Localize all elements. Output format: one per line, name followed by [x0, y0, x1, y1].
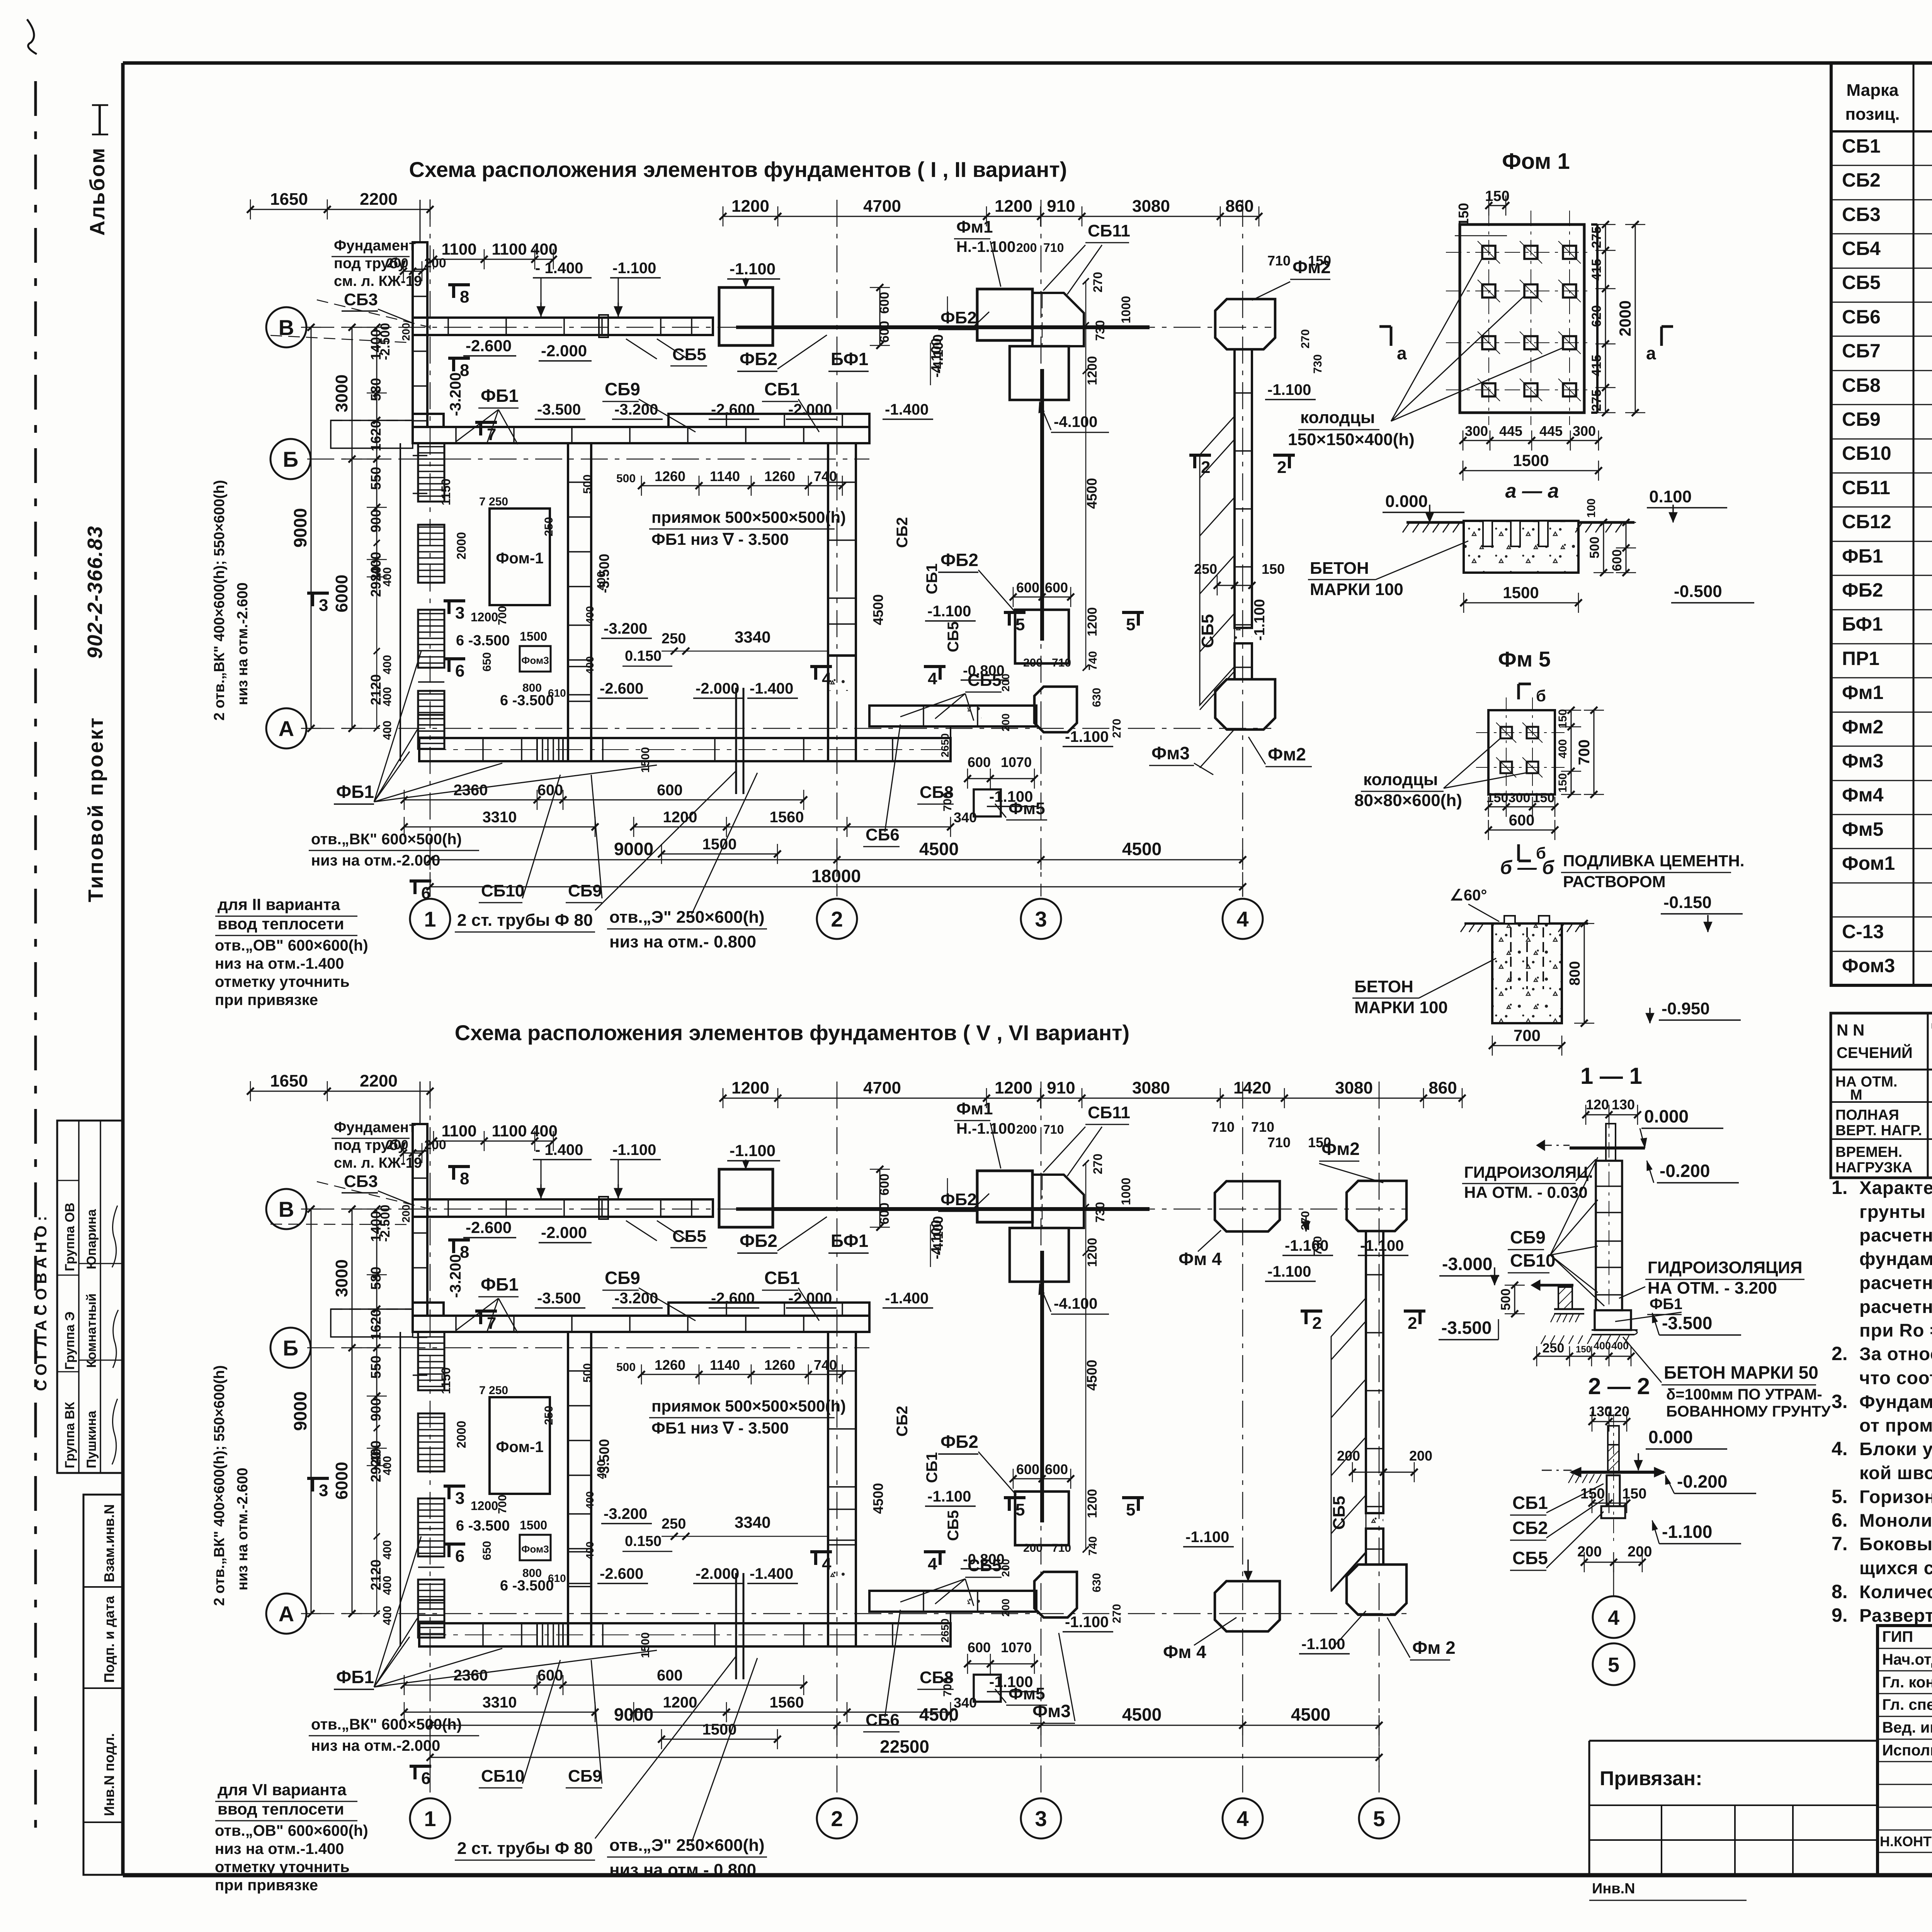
svg-text:1260: 1260: [764, 468, 795, 484]
svg-text:СБ10: СБ10: [481, 881, 524, 900]
svg-text:ввод теплосети: ввод теплосети: [218, 1800, 344, 1818]
svg-text:отв.„ВК" 600×500(h): отв.„ВК" 600×500(h): [311, 1716, 462, 1733]
svg-text:Фм 5: Фм 5: [1498, 647, 1551, 671]
plan 1 Фом-1 rectangle: [490, 509, 550, 605]
svg-text:ФБ2: ФБ2: [1842, 579, 1883, 601]
svg-text:СБ6: СБ6: [866, 825, 900, 844]
components table: [1831, 63, 1932, 985]
svg-text:щихся с грунтом , окраси: щихся с грунтом , окрасить битумом за 2 …: [1859, 1558, 1932, 1578]
svg-text:МАРКИ 100: МАРКИ 100: [1354, 998, 1448, 1017]
plan 2 Фм2 corner blocks: [1347, 1181, 1406, 1231]
svg-text:-4.100: -4.100: [1054, 413, 1097, 430]
plan 2 axis row circles В Б А: [266, 1189, 306, 1229]
svg-text:2 отв.„ВК" 400×600(h); 550×600: 2 отв.„ВК" 400×600(h); 550×600(h): [211, 480, 228, 721]
svg-text:СБ5: СБ5: [1512, 1548, 1548, 1568]
svg-text:1200: 1200: [1085, 1238, 1100, 1267]
svg-text:А: А: [279, 1602, 294, 1626]
svg-text:4700: 4700: [863, 1078, 901, 1097]
svg-text:-1.100: -1.100: [927, 603, 971, 620]
svg-text:8: 8: [460, 361, 469, 380]
svg-text:ФБ1: ФБ1: [1650, 1296, 1682, 1313]
svg-text:740: 740: [1087, 651, 1099, 670]
plan 2 ФБ2 lower square on axis 3: [1015, 1492, 1069, 1545]
svg-text:Фм3: Фм3: [1032, 1701, 1071, 1721]
svg-text:а — а: а — а: [1505, 480, 1559, 502]
svg-text:СБ8: СБ8: [1842, 374, 1881, 396]
plan 1 прямок upper plate: [668, 414, 869, 427]
svg-text:-1.100: -1.100: [1065, 1614, 1109, 1631]
svg-text:200: 200: [1337, 1448, 1360, 1464]
svg-text:2 — 2: 2 — 2: [1588, 1373, 1650, 1399]
svg-text:Фм1: Фм1: [956, 218, 993, 236]
svg-text:см. л. КЖ-19: см. л. КЖ-19: [334, 1155, 422, 1171]
svg-text:7: 7: [487, 1314, 496, 1333]
svg-text:СБ5: СБ5: [945, 621, 962, 652]
loads table: [1831, 1013, 1932, 1178]
svg-text:СБ8: СБ8: [920, 783, 954, 802]
svg-text:200: 200: [400, 1204, 412, 1223]
svg-text:550: 550: [368, 1355, 384, 1379]
section 2-2 axis line and circles 4 5: [1613, 1562, 1614, 1596]
plan 1 section mark 3 left: [307, 592, 329, 595]
svg-text:3000: 3000: [332, 374, 351, 412]
svg-text:-2.600: -2.600: [466, 1218, 512, 1236]
plan 1 фундамент под трубу dashed: [331, 420, 413, 448]
svg-text:800: 800: [522, 682, 542, 694]
svg-text:600: 600: [657, 1667, 683, 1684]
section 1-1 fan leaders: [1550, 1157, 1598, 1255]
svg-text:М: М: [1850, 1087, 1862, 1103]
svg-text:2: 2: [831, 1806, 843, 1831]
svg-text:0.000: 0.000: [1648, 1427, 1693, 1447]
svg-text:расчетное значение объе: расчетное значение объемной массы грунта…: [1859, 1225, 1932, 1246]
svg-text:270: 270: [1111, 1604, 1123, 1623]
svg-text:600: 600: [877, 1202, 892, 1225]
svg-text:270: 270: [1091, 1154, 1105, 1174]
svg-text:1560: 1560: [770, 809, 804, 826]
svg-text:отв.„ВК" 600×500(h): отв.„ВК" 600×500(h): [311, 831, 462, 848]
plan 2 БФ1 vertical beam on axis 3: [1040, 1251, 1044, 1522]
svg-text:7 250: 7 250: [479, 495, 508, 508]
section 2-2 ground hatch left: [1568, 1474, 1573, 1483]
svg-text:Гл. спец.: Гл. спец.: [1882, 1696, 1932, 1713]
plan 1 top wall on axis В: [413, 318, 713, 335]
plan 2 Фом3 square: [520, 1535, 551, 1560]
svg-text:4500: 4500: [1122, 839, 1162, 859]
svg-text:СБ3: СБ3: [344, 1172, 378, 1191]
svg-text:400: 400: [381, 655, 394, 674]
plan 2 right strip hatching: [1331, 1298, 1366, 1590]
svg-text:1200: 1200: [1085, 607, 1100, 636]
svg-text:-3.200: -3.200: [604, 620, 647, 637]
svg-text:N N: N N: [1837, 1021, 1864, 1039]
plan 2 600 600 dims beside ФБ2 square: [879, 1169, 881, 1227]
plan 1 ФБ2 lower square on axis 3: [1015, 610, 1069, 663]
svg-text:4: 4: [1236, 1806, 1248, 1831]
svg-text:А: А: [279, 716, 294, 741]
svg-text:200: 200: [1000, 713, 1012, 731]
plan 1 bottom dims: [430, 859, 1243, 861]
svg-text:Фом3: Фом3: [521, 655, 549, 666]
svg-text:низ на отм.-1.400: низ на отм.-1.400: [215, 955, 344, 972]
svg-text:СБ1: СБ1: [923, 1452, 940, 1483]
svg-text:900: 900: [368, 509, 384, 532]
svg-text:-3.000: -3.000: [1442, 1254, 1492, 1274]
svg-text:-1.400: -1.400: [885, 401, 929, 418]
plan 2 left wall hatched blocks: [400, 1332, 401, 1646]
svg-text:Монолитные участки между: Монолитные участки между фундаментными б…: [1859, 1510, 1932, 1531]
plan 2 Фм3 block: [1034, 1572, 1077, 1617]
svg-text:3080: 3080: [1132, 1078, 1170, 1097]
svg-text:300: 300: [1573, 423, 1596, 439]
svg-text:СБ1: СБ1: [764, 379, 800, 399]
svg-text:СБ3: СБ3: [344, 290, 378, 309]
svg-text:Фм3: Фм3: [1151, 743, 1190, 763]
plan 1 axis row circles В Б А: [266, 307, 306, 347]
svg-text:150: 150: [1485, 188, 1509, 204]
svg-text:-1.100: -1.100: [1185, 1529, 1229, 1546]
svg-text:-1.100: -1.100: [1267, 381, 1311, 398]
svg-text:2000: 2000: [454, 532, 468, 560]
svg-text:1500: 1500: [1503, 583, 1539, 602]
svg-text:860: 860: [1429, 1078, 1457, 1097]
svg-text:1620: 1620: [368, 420, 384, 451]
svg-text:250: 250: [543, 1406, 555, 1425]
detail Фм5 plan: [1488, 710, 1555, 794]
svg-text:РАСТВОРОМ: РАСТВОРОМ: [1563, 872, 1666, 891]
svg-text:150: 150: [1533, 791, 1555, 805]
svg-text:710: 710: [1211, 1119, 1235, 1135]
svg-text:Схема расположения элементов: Схема расположения элементов фундаментов…: [455, 1020, 1129, 1045]
svg-text:1260: 1260: [764, 1357, 795, 1373]
svg-text:2: 2: [1312, 1314, 1321, 1333]
svg-text:-1.100: -1.100: [927, 1488, 971, 1505]
svg-text:2650: 2650: [939, 1619, 951, 1643]
svg-text:Привязан:: Привязан:: [1600, 1767, 1702, 1790]
svg-text:710: 710: [1267, 253, 1291, 269]
svg-text:2: 2: [1201, 458, 1210, 477]
svg-text:630: 630: [1090, 688, 1103, 707]
svg-text:1200: 1200: [663, 1694, 697, 1711]
svg-text:Фм 2: Фм 2: [1412, 1638, 1456, 1658]
svg-text:700: 700: [496, 1495, 509, 1514]
svg-text:см. л. КЖ-19: см. л. КЖ-19: [334, 273, 422, 289]
svg-text:СБ5: СБ5: [1842, 272, 1881, 293]
svg-text:Группа ВК: Группа ВК: [63, 1402, 77, 1468]
svg-text:2: 2: [1408, 1314, 1417, 1333]
svg-text:4.: 4.: [1832, 1438, 1848, 1459]
svg-text:150: 150: [1622, 1486, 1646, 1502]
svg-text:отв.„ОВ" 600×600(h): отв.„ОВ" 600×600(h): [215, 1822, 368, 1839]
svg-text:150: 150: [1576, 1344, 1591, 1355]
svg-text:600: 600: [657, 782, 683, 799]
svg-text:ГИДРОИЗОЛЯЦ.: ГИДРОИЗОЛЯЦ.: [1464, 1163, 1593, 1181]
svg-text:415: 415: [1589, 355, 1604, 377]
plan 2 dim chain 1260 1140 1260 740: [641, 1374, 842, 1375]
svg-text:СБ5: СБ5: [968, 1556, 1002, 1575]
plan 2 inner bottom dims: [404, 1685, 804, 1686]
svg-text:1: 1: [424, 907, 436, 931]
svg-text:2650: 2650: [939, 733, 951, 757]
svg-text:740: 740: [814, 1357, 837, 1373]
svg-text:ФБ1: ФБ1: [1842, 545, 1883, 567]
svg-text:710: 710: [1043, 1122, 1064, 1136]
svg-text:700: 700: [496, 606, 509, 625]
svg-text:Исполн.: Исполн.: [1882, 1742, 1932, 1759]
detail Фм5 section mark б bottom: [1517, 844, 1520, 861]
svg-text:-3.500: -3.500: [537, 1290, 581, 1307]
svg-text:-1.400: -1.400: [885, 1290, 929, 1307]
svg-text:С О Г Л А С О В А Н О :: С О Г Л А С О В А Н О :: [33, 1216, 50, 1391]
svg-text:1200: 1200: [731, 1078, 769, 1097]
svg-text:600: 600: [1016, 580, 1039, 595]
plan 2 фундамент под трубу dashed: [331, 1309, 413, 1337]
svg-text:-0.200: -0.200: [1677, 1471, 1727, 1492]
svg-text:колодцы: колодцы: [1363, 770, 1438, 789]
svg-text:1000: 1000: [1119, 296, 1133, 323]
svg-text:Гл. конст.: Гл. конст.: [1882, 1674, 1932, 1691]
svg-text:730: 730: [1311, 354, 1324, 374]
svg-text:600: 600: [968, 1639, 991, 1655]
svg-text:Н.КОНТР.: Н.КОНТР.: [1880, 1833, 1932, 1849]
signature squiggles: [112, 1399, 117, 1464]
svg-text:1140: 1140: [710, 1357, 740, 1373]
svg-text:отметку уточнить: отметку уточнить: [215, 1859, 350, 1876]
svg-text:СБ9: СБ9: [1510, 1227, 1546, 1247]
svg-text:фундаментов ɣ = 1800 кгс/м³: фундаментов ɣ = 1800 кгс/м³ ; выше подош…: [1859, 1249, 1932, 1269]
svg-text:250: 250: [543, 517, 555, 536]
svg-text:500: 500: [581, 1363, 594, 1383]
svg-text:7.: 7.: [1832, 1533, 1848, 1554]
svg-text:600: 600: [1045, 580, 1068, 595]
svg-text:1500: 1500: [520, 1518, 547, 1532]
svg-text:1 — 1: 1 — 1: [1580, 1063, 1642, 1089]
svg-text:1200: 1200: [1085, 356, 1100, 385]
svg-text:710: 710: [1052, 656, 1071, 669]
svg-text:СБ2: СБ2: [894, 1406, 911, 1437]
svg-text:что соответствует абс: что соответствует абсолютной отметке: [1859, 1368, 1932, 1388]
svg-text:445: 445: [1539, 423, 1563, 439]
svg-text:БФ1: БФ1: [831, 349, 868, 369]
svg-text:отв.„Э" 250×600(h): отв.„Э" 250×600(h): [609, 1836, 765, 1855]
svg-text:1500: 1500: [1513, 451, 1549, 469]
svg-text:600: 600: [1016, 1461, 1039, 1477]
plan 2 Фм1+СБ11 cluster on axis 3: [977, 1171, 1032, 1222]
detail б-б rebar dashes: [1510, 927, 1512, 989]
svg-text:710: 710: [1052, 1542, 1071, 1554]
svg-text:3000: 3000: [332, 1259, 351, 1297]
plan 2 прямок upper plate: [668, 1303, 869, 1316]
svg-text:- 1.400: - 1.400: [535, 260, 583, 277]
svg-text:δ=100мм ПО УТРАМ-: δ=100мм ПО УТРАМ-: [1666, 1386, 1822, 1403]
svg-text:ГИП: ГИП: [1882, 1628, 1913, 1645]
svg-text:Фом-1: Фом-1: [496, 550, 543, 567]
svg-text:1100: 1100: [492, 240, 527, 258]
svg-text:400: 400: [531, 240, 558, 258]
svg-text:СБ3: СБ3: [1842, 204, 1881, 225]
svg-text:7 250: 7 250: [479, 1384, 508, 1397]
svg-text:1070: 1070: [1001, 1639, 1032, 1655]
svg-text:4500: 4500: [1291, 1704, 1330, 1725]
svg-text:б: б: [1536, 687, 1546, 705]
svg-text:250: 250: [1194, 561, 1217, 577]
svg-text:Фм2: Фм2: [1842, 716, 1883, 738]
svg-text:ФБ1: ФБ1: [336, 782, 374, 802]
svg-text:низ на отм.-2.000: низ на отм.-2.000: [311, 1737, 440, 1754]
svg-text:Развертки и сечения 3: Развертки и сечения 3-3 ÷ 8-8 см . КЖ-6 …: [1859, 1605, 1932, 1626]
plan 2 axis lines: [307, 1209, 1406, 1210]
left margin bottom block Взам.инв.N / Подп. и дата / Инв.N подл.: [83, 1495, 122, 1875]
plan 1 axis column circles: [410, 899, 450, 939]
svg-text:3: 3: [455, 1489, 464, 1508]
svg-text:5: 5: [1608, 1653, 1619, 1677]
svg-text:Фм1: Фм1: [1842, 682, 1883, 703]
svg-text:600: 600: [877, 321, 892, 343]
svg-text:- 1.400: - 1.400: [535, 1141, 583, 1158]
svg-text:730: 730: [1093, 320, 1107, 341]
svg-text:-1.100: -1.100: [1252, 599, 1268, 641]
svg-text:600: 600: [968, 754, 991, 770]
svg-text:2: 2: [831, 907, 843, 931]
svg-text:НА ОТМ. - 0.030: НА ОТМ. - 0.030: [1464, 1183, 1588, 1201]
svg-text:1200: 1200: [663, 809, 697, 826]
section 1-1 floor line: [1570, 1146, 1645, 1150]
svg-text:-3.200: -3.200: [614, 1290, 658, 1307]
svg-text:НА ОТМ. - 3.200: НА ОТМ. - 3.200: [1648, 1279, 1777, 1298]
svg-text:600: 600: [877, 292, 892, 314]
svg-text:Нач.отд.: Нач.отд.: [1882, 1651, 1932, 1668]
svg-text:5: 5: [1015, 615, 1025, 634]
svg-text:2360: 2360: [454, 1667, 488, 1684]
plan 2 БФ1 beam line: [773, 1207, 1150, 1211]
svg-text:200: 200: [1577, 1544, 1602, 1560]
svg-text:2000: 2000: [454, 1421, 468, 1448]
svg-text:200: 200: [1628, 1544, 1652, 1560]
svg-text:1400: 1400: [368, 329, 384, 360]
svg-text:9000: 9000: [290, 508, 310, 548]
svg-text:500: 500: [581, 474, 594, 494]
svg-text:БЕТОН МАРКИ 50: БЕТОН МАРКИ 50: [1664, 1362, 1818, 1383]
svg-text:СБ10: СБ10: [1510, 1250, 1555, 1270]
svg-text:Схема расположения элементов: Схема расположения элементов фундаментов…: [409, 157, 1067, 182]
svg-text:СБ2: СБ2: [894, 517, 911, 548]
svg-text:80×80×600(h): 80×80×600(h): [1354, 791, 1462, 810]
svg-text:под трубу: под трубу: [334, 1137, 406, 1153]
plan 1 wall on axis Б: [413, 427, 869, 443]
svg-text:580: 580: [368, 378, 384, 401]
plan 2 wall on axis Б: [413, 1316, 869, 1332]
svg-text:650: 650: [481, 652, 493, 672]
svg-text:1.: 1.: [1832, 1177, 1848, 1198]
svg-text:630: 630: [1090, 1573, 1103, 1592]
svg-text:кой швов .: кой швов .: [1859, 1463, 1932, 1483]
svg-text:ФБ1: ФБ1: [481, 1274, 519, 1294]
section 1-1 bottom dims 250 150 400 400: [1537, 1356, 1631, 1357]
svg-text:от промерзания грунту ,: от промерзания грунту , укладка блоков н…: [1859, 1415, 1932, 1436]
detail Фм5 section mark б top: [1517, 684, 1520, 699]
svg-text:1100: 1100: [441, 240, 476, 258]
svg-text:ГИДРОИЗОЛЯЦИЯ: ГИДРОИЗОЛЯЦИЯ: [1648, 1258, 1803, 1277]
svg-text:400: 400: [584, 1541, 596, 1560]
section 1-1 wall stub above floor: [1606, 1124, 1616, 1161]
svg-text:650: 650: [481, 1541, 493, 1560]
svg-text:730: 730: [1093, 1202, 1107, 1223]
svg-text:3080: 3080: [1132, 197, 1170, 216]
svg-text:-2.600: -2.600: [600, 680, 643, 697]
svg-text:400: 400: [584, 656, 596, 674]
svg-text:4500: 4500: [870, 594, 886, 625]
svg-text:СБ10: СБ10: [481, 1767, 524, 1786]
svg-text:Боковые поверхности бето: Боковые поверхности бетонных стен подвал…: [1859, 1534, 1932, 1554]
svg-text:-1.100: -1.100: [989, 788, 1033, 805]
svg-text:Б: Б: [283, 447, 298, 471]
svg-text:200: 200: [400, 323, 412, 341]
svg-text:6: 6: [421, 884, 430, 903]
svg-text:1100: 1100: [492, 1122, 527, 1140]
detail а-а section: [1464, 521, 1578, 573]
svg-text:4: 4: [928, 669, 937, 688]
svg-text:ПОЛНАЯ: ПОЛНАЯ: [1835, 1107, 1899, 1123]
svg-text:6: 6: [421, 1769, 430, 1788]
plan 2 стена оси 2: [828, 1332, 856, 1646]
svg-text:500: 500: [1498, 1289, 1513, 1311]
svg-text:грунты нескальные , однор: грунты нескальные , однородные , непучин…: [1859, 1202, 1932, 1222]
svg-text:270: 270: [1299, 1211, 1312, 1230]
svg-text:при привязке: при привязке: [215, 992, 318, 1009]
svg-text:Вед. инж.: Вед. инж.: [1882, 1719, 1932, 1736]
svg-text:2 ст. трубы Ф 80: 2 ст. трубы Ф 80: [457, 911, 593, 930]
svg-text:для VI варианта: для VI варианта: [218, 1781, 347, 1799]
svg-text:2 ст. трубы Ф 80: 2 ст. трубы Ф 80: [457, 1839, 593, 1858]
svg-text:610: 610: [548, 1572, 566, 1584]
svg-text:Юпарина: Юпарина: [84, 1209, 99, 1269]
svg-text:для II варианта: для II варианта: [218, 895, 340, 913]
svg-text:Фм5: Фм5: [1842, 818, 1883, 840]
svg-text:ФБ1: ФБ1: [481, 386, 519, 406]
section 2-2 dims 130 120: [1592, 1421, 1627, 1422]
привязан box: [1589, 1740, 1878, 1742]
svg-text:1620: 1620: [368, 1309, 384, 1340]
svg-text:500: 500: [616, 472, 636, 485]
svg-text:150: 150: [1486, 791, 1509, 805]
plan 1 Фм1+СБ11 cluster on axis 3: [977, 289, 1032, 340]
plan 2 section mark 3 left: [307, 1477, 329, 1480]
plan 1 нижняя стена продолжение: [869, 706, 1036, 726]
svg-text:Подп. и дата: Подп. и дата: [101, 1595, 117, 1683]
svg-text:1100: 1100: [441, 1122, 476, 1140]
svg-text:900: 900: [368, 1398, 384, 1421]
svg-text:4500: 4500: [870, 1483, 886, 1514]
svg-text:6 -3.500: 6 -3.500: [500, 1578, 554, 1594]
svg-text:200: 200: [1409, 1448, 1432, 1464]
detail Фом1 dim 150 top: [1489, 205, 1506, 206]
svg-text:1560: 1560: [770, 1694, 804, 1711]
svg-text:270: 270: [1299, 329, 1312, 349]
svg-text:740: 740: [814, 468, 837, 484]
svg-text:-2.600: -2.600: [600, 1565, 643, 1582]
svg-text:150: 150: [1556, 709, 1569, 728]
svg-text:300: 300: [1509, 791, 1531, 805]
svg-text:1650: 1650: [270, 1071, 308, 1090]
svg-text:2360: 2360: [454, 782, 488, 799]
svg-text:700: 700: [1514, 1026, 1541, 1044]
svg-text:БЕТОН: БЕТОН: [1310, 559, 1369, 578]
svg-text:3.: 3.: [1832, 1391, 1848, 1412]
svg-text:-1.100: -1.100: [1662, 1522, 1712, 1542]
svg-text:СБ5: СБ5: [968, 671, 1002, 690]
svg-text:-3.500: -3.500: [1441, 1318, 1492, 1338]
svg-text:-4.100: -4.100: [930, 1216, 946, 1255]
